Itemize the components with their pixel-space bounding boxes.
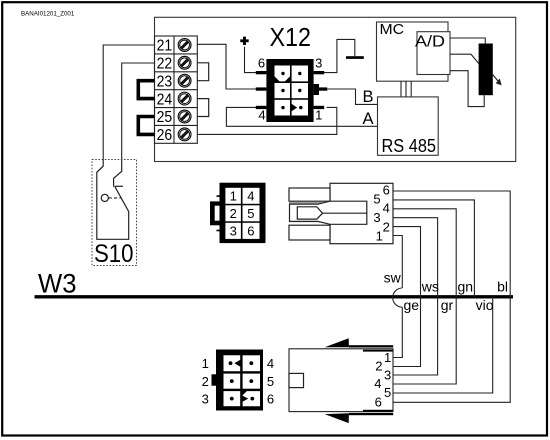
svg-text:21: 21: [157, 38, 173, 55]
connector face mid body: [220, 183, 266, 243]
X12 cavity pins (dots): [281, 72, 302, 110]
svg-text:23: 23: [157, 73, 173, 90]
svg-text:vio: vio: [476, 297, 494, 313]
svg-text:1: 1: [202, 356, 209, 371]
switch S10 actuator dashed link: [109, 197, 122, 199]
switch S10 contact (left conductor): [97, 160, 129, 240]
plug upper latch inner blade: [297, 207, 322, 219]
svg-text:2: 2: [383, 219, 390, 234]
potentiometer wiper arrow: [493, 75, 499, 83]
plus symbol: [240, 37, 248, 45]
link bracket 24-25 (right): [197, 99, 208, 117]
svg-text:4: 4: [374, 376, 381, 391]
connector face mid tab slot: [215, 206, 220, 221]
connector face mid tick top: [217, 195, 220, 197]
X12 cavity 2: [292, 66, 308, 82]
socket lower body: [289, 349, 393, 412]
svg-text:22: 22: [157, 56, 173, 73]
switch S10 contact tick: [115, 185, 123, 187]
ground symbol: [346, 56, 364, 59]
svg-text:6: 6: [258, 56, 265, 71]
svg-text:4: 4: [247, 189, 254, 204]
svg-text:ge: ge: [404, 297, 420, 313]
wire terminal 26 to X12 pin 1: [197, 107, 336, 134]
wire X12 pin 4 to RS485 A: [226, 107, 377, 126]
svg-text:4: 4: [258, 108, 265, 123]
face bottom cell 4: [243, 355, 260, 371]
X12 key bump right: [314, 84, 319, 95]
svg-text:24: 24: [157, 91, 173, 108]
wire sw crossing loop: [393, 288, 403, 307]
wire sw to lower pin 1: [393, 307, 402, 357]
screw terminal 25: [178, 110, 191, 123]
wire terminal 22 to S10: [122, 63, 155, 160]
svg-text:5: 5: [384, 385, 391, 400]
switch S10 contact (right conductor): [114, 160, 122, 187]
X12 pin stub 6: [256, 71, 267, 74]
plug upper latch shadow bottom: [289, 220, 323, 223]
socket lower arrow bottom: [325, 413, 349, 423]
bus lines MC-RS485: [401, 81, 411, 97]
svg-text:6: 6: [267, 391, 274, 406]
plug upper latch rib bottom: [289, 225, 330, 240]
screw terminal 21: [178, 39, 191, 52]
W3 harness line (thick): [35, 295, 514, 298]
plug upper latch center line: [323, 212, 367, 214]
svg-text:sw: sw: [384, 270, 402, 286]
svg-text:4: 4: [267, 356, 274, 371]
svg-text:26: 26: [157, 127, 173, 144]
svg-text:4: 4: [383, 201, 390, 216]
X12 cavity 1 (keyed): [275, 66, 291, 82]
svg-text:25: 25: [157, 109, 173, 126]
X12 pin stub 1: [314, 106, 325, 109]
svg-text:2: 2: [202, 374, 209, 389]
svg-text:6: 6: [375, 395, 382, 410]
device box (electronics unit): [155, 17, 516, 161]
wire X12 pin 2 to RS485 B: [327, 89, 378, 104]
wire gn (upper pin 5 to harness): [393, 200, 474, 297]
connector X12 body: [266, 59, 313, 122]
svg-text:5: 5: [247, 206, 254, 221]
terminal numbers 21-26: [157, 38, 173, 144]
link bracket 22-23 (right): [197, 63, 208, 81]
svg-text:W3: W3: [38, 268, 77, 298]
X12 cavity 4: [292, 83, 308, 98]
X12 cavity 5: [275, 100, 291, 116]
socket lower left notch: [289, 373, 304, 387]
jumper bracket 23-24 (thick, left): [138, 81, 154, 99]
svg-text:1: 1: [230, 189, 237, 204]
face mid cell 4: [243, 188, 260, 204]
MC box: [377, 22, 449, 81]
switch S10 actuator circle: [101, 194, 108, 201]
svg-text:gn: gn: [458, 279, 474, 295]
svg-text:A: A: [363, 110, 374, 128]
svg-text:3: 3: [373, 210, 380, 225]
svg-text:3: 3: [315, 56, 322, 71]
X12 pin stub 3: [314, 71, 325, 74]
RS 485 box: [378, 97, 439, 155]
wire bl (upper pin 6 to lower pin 6): [393, 191, 510, 402]
face bottom cell 6 (keyed): [243, 391, 260, 406]
plug upper latch rib top: [289, 188, 330, 201]
svg-text:A/D: A/D: [415, 33, 445, 50]
face mid numbers: [230, 189, 255, 239]
potentiometer R (black body): [479, 44, 493, 96]
face mid cell 3: [225, 223, 241, 239]
svg-text:2: 2: [230, 206, 237, 221]
wire X12 pin 3 to ground: [324, 39, 355, 72]
screw terminal 26: [178, 128, 191, 141]
connector face mid tab: [210, 201, 220, 225]
svg-text:MC: MC: [380, 21, 405, 38]
svg-text:1: 1: [376, 229, 383, 244]
wire gr (upper pin 4 to lower pin 4): [393, 209, 456, 384]
socket lower bottom contact bar: [363, 410, 393, 412]
X12 pin stub 4: [256, 106, 267, 109]
face bottom cell 2: [224, 374, 241, 389]
wire vio (harness to lower pin 5): [393, 297, 493, 393]
wire ws (upper pin 3 to lower pin 3): [393, 218, 438, 375]
plug X20 upper body: [330, 183, 393, 243]
switch S10 dotted box: [92, 160, 137, 266]
svg-text:S10: S10: [94, 240, 134, 268]
svg-text:1: 1: [315, 108, 322, 123]
svg-text:6: 6: [383, 182, 390, 197]
face bottom cell 3: [224, 391, 241, 406]
svg-text:RS 485: RS 485: [382, 136, 437, 156]
face bottom cell 1 (keyed): [224, 355, 241, 371]
svg-text:3: 3: [384, 367, 391, 382]
face bottom dots: [229, 361, 255, 400]
X12 cavity 3: [275, 83, 291, 98]
svg-text:ws: ws: [421, 279, 439, 295]
wire ge (upper pin 2 to lower pin 2): [393, 227, 421, 367]
socket lower arrow top: [325, 338, 349, 347]
svg-text:BANAI01201_Z001: BANAI01201_Z001: [21, 11, 75, 18]
socket lower top contact bar: [363, 350, 393, 352]
wire plus to X12 pin 6: [245, 47, 257, 73]
potentiometer wires: [450, 38, 485, 44]
screw terminal 23: [178, 74, 191, 87]
svg-text:3: 3: [202, 391, 209, 406]
svg-text:6: 6: [247, 224, 254, 239]
svg-text:bl: bl: [497, 279, 508, 295]
svg-text:5: 5: [373, 192, 380, 207]
A/D box: [417, 32, 450, 75]
wire terminal 21 to X12 pin 5: [197, 44, 256, 89]
svg-text:B: B: [363, 88, 374, 106]
plug upper latch lever outline: [290, 201, 367, 224]
svg-text:1: 1: [384, 350, 391, 365]
face mid cell 2: [225, 205, 241, 221]
svg-text:5: 5: [267, 374, 274, 389]
X12 pin stub 5: [256, 87, 267, 90]
wire sw (upper pin 1): [393, 236, 402, 289]
face bottom cell 5: [243, 374, 260, 389]
plug upper latch shadow top: [289, 202, 323, 205]
face mid cell 1: [225, 188, 241, 204]
jumper bracket 25-26 (thick, left): [138, 117, 154, 135]
connector face bottom tab: [212, 374, 217, 385]
svg-text:2: 2: [375, 359, 382, 374]
connector face bottom body: [216, 350, 263, 411]
svg-text:X12: X12: [270, 22, 312, 52]
X12 pin stub 2: [319, 87, 327, 90]
connector face mid tick bottom: [217, 230, 220, 232]
face mid cell 5: [243, 205, 260, 221]
face mid cell 6: [243, 223, 260, 239]
svg-text:gr: gr: [441, 297, 454, 313]
X12 cavity 6 (keyed): [292, 100, 308, 116]
wire terminal 21 to S10: [103, 45, 154, 160]
screw terminal 22: [178, 56, 191, 69]
terminal block 21-26: [155, 36, 198, 143]
screw terminal 24: [178, 92, 191, 105]
svg-text:3: 3: [230, 224, 237, 239]
